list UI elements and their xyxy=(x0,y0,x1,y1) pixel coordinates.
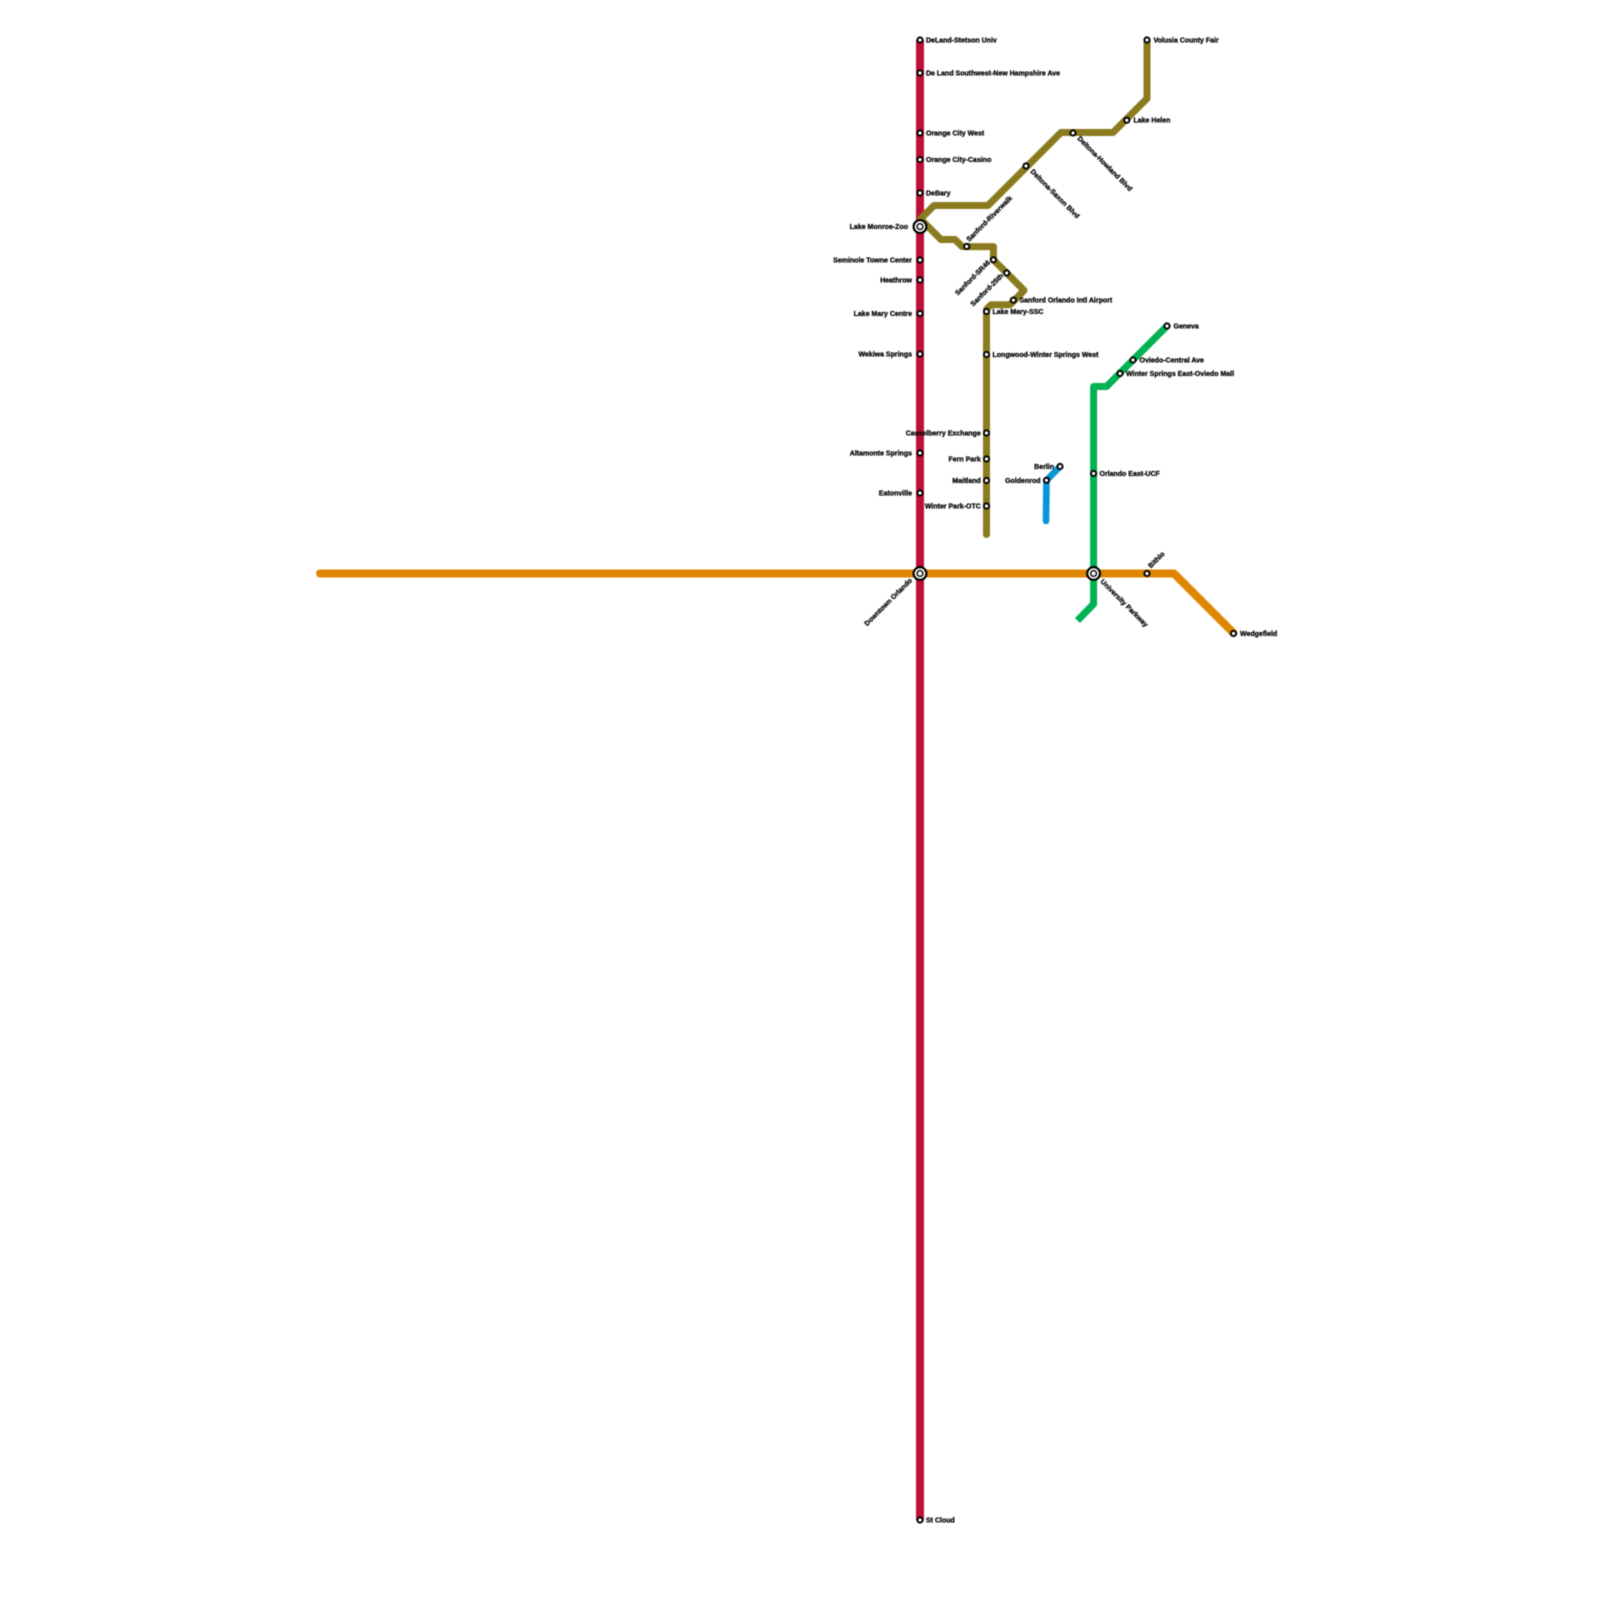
svg-text:Orange City-Casino: Orange City-Casino xyxy=(926,157,991,164)
station Volusia County Fair xyxy=(1144,37,1149,42)
station Orange City-Casino xyxy=(917,157,922,162)
station Wedgefield xyxy=(1231,631,1236,636)
station Orange City West xyxy=(917,130,922,135)
svg-text:Fern Park: Fern Park xyxy=(949,457,981,464)
station Longwood-Winter Springs West xyxy=(984,352,989,357)
svg-text:Orlando East-UCF: Orlando East-UCF xyxy=(1100,471,1161,478)
station DeBary xyxy=(917,190,922,195)
svg-text:Lake Helen: Lake Helen xyxy=(1134,118,1171,125)
svg-text:Orange City West: Orange City West xyxy=(926,131,985,138)
svg-text:Altamonte Springs: Altamonte Springs xyxy=(850,451,912,458)
station Deltona-Howland Blvd xyxy=(1070,130,1075,135)
station Goldenrod xyxy=(1044,478,1049,483)
svg-text:Eatonville: Eatonville xyxy=(879,491,912,498)
svg-text:DeLand-Stetson Univ: DeLand-Stetson Univ xyxy=(926,38,997,45)
svg-text:Winter Park-OTC: Winter Park-OTC xyxy=(925,504,981,511)
blue line xyxy=(1046,467,1060,522)
station Casselberry Exchange xyxy=(984,430,989,435)
station Eatonville xyxy=(917,490,922,495)
svg-text:Winter Springs East-Oviedo Mal: Winter Springs East-Oviedo Mall xyxy=(1126,371,1234,378)
station Winter Springs East-Oviedo Mall xyxy=(1117,371,1122,376)
station St Cloud xyxy=(917,1517,922,1522)
svg-text:Heathrow: Heathrow xyxy=(880,278,912,285)
transfer station University Parkway xyxy=(1087,567,1100,580)
svg-text:Lake Mary-SSC: Lake Mary-SSC xyxy=(993,309,1044,316)
station Winter Park-OTC xyxy=(984,503,989,508)
green line xyxy=(1078,326,1168,621)
svg-text:Maitland: Maitland xyxy=(952,478,980,485)
station Seminole Towne Center xyxy=(917,257,922,262)
orange line xyxy=(320,574,1234,634)
svg-text:De Land Southwest-New Hampshir: De Land Southwest-New Hampshire Ave xyxy=(926,71,1060,78)
station De Land Southwest-New Hampshire Ave xyxy=(917,70,922,75)
svg-text:Lake Monroe-Zoo: Lake Monroe-Zoo xyxy=(850,224,908,231)
station Orlando East-UCF xyxy=(1091,471,1096,476)
svg-text:Lake Mary Centre: Lake Mary Centre xyxy=(854,311,912,318)
svg-text:St Cloud: St Cloud xyxy=(926,1518,955,1525)
olive line xyxy=(921,40,1148,535)
svg-text:Goldenrod: Goldenrod xyxy=(1005,478,1040,485)
station Lake Helen xyxy=(1124,118,1129,123)
station Fern Park xyxy=(984,456,989,461)
station Heathrow xyxy=(917,277,922,282)
station Berlin xyxy=(1057,464,1062,469)
svg-text:Geneva: Geneva xyxy=(1174,324,1199,331)
transfer station Lake Monroe-Zoo xyxy=(914,220,927,233)
svg-text:Sanford Orlando Intl Airport: Sanford Orlando Intl Airport xyxy=(1020,298,1113,305)
transfer station Downtown Orlando xyxy=(914,567,927,580)
station DeLand-Stetson Univ xyxy=(917,37,922,42)
station Lake Mary Centre xyxy=(917,311,922,316)
svg-text:Longwood-Winter Springs West: Longwood-Winter Springs West xyxy=(993,352,1100,359)
station Maitland xyxy=(984,478,989,483)
svg-text:Volusia County Fair: Volusia County Fair xyxy=(1154,38,1219,45)
station Deltona-Saxon Blvd xyxy=(1023,163,1028,168)
svg-text:Wedgefield: Wedgefield xyxy=(1240,631,1277,638)
svg-text:Seminole Towne Center: Seminole Towne Center xyxy=(833,258,912,265)
crimson line xyxy=(916,40,924,1520)
station Altamonte Springs xyxy=(917,450,922,455)
station Sanford-Marina xyxy=(964,244,969,249)
station Bithlo xyxy=(1144,571,1149,576)
svg-text:Oviedo-Central Ave: Oviedo-Central Ave xyxy=(1140,358,1205,365)
station Oviedo-Central Ave xyxy=(1130,357,1135,362)
svg-text:Berlin: Berlin xyxy=(1034,464,1054,471)
svg-text:DeBary: DeBary xyxy=(926,191,951,198)
station Lake Mary-SSC xyxy=(984,309,989,314)
station Sanford Orlando Intl Airport xyxy=(1011,298,1016,303)
svg-text:Wekiwa Springs: Wekiwa Springs xyxy=(858,352,912,359)
station Geneva xyxy=(1164,323,1169,328)
station Sanford-SR46 xyxy=(991,257,996,262)
station Sanford-25th xyxy=(1004,270,1009,275)
station Wekiwa Springs xyxy=(917,351,922,356)
svg-text:Casselberry Exchange: Casselberry Exchange xyxy=(906,431,981,438)
